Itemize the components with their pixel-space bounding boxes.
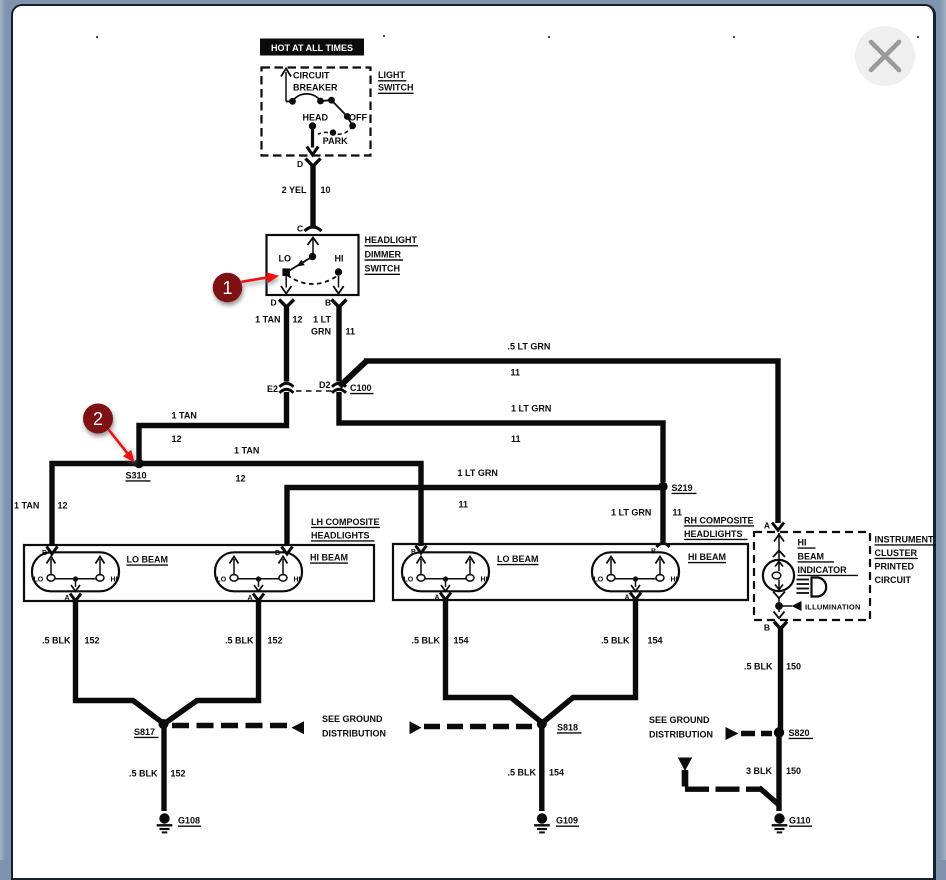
svg-text:.5 BLK: .5 BLK [129, 768, 158, 778]
wire 1 LT GRN 11 D2 to S219 [339, 392, 663, 482]
svg-text:10: 10 [321, 185, 331, 195]
svg-text:A: A [247, 595, 252, 602]
svg-text:A: A [764, 521, 770, 531]
light switch internal labels [293, 71, 367, 146]
svg-text:BEAM: BEAM [798, 551, 825, 561]
svg-text:150: 150 [786, 766, 801, 776]
svg-text:S310: S310 [126, 470, 147, 480]
svg-text:11: 11 [346, 326, 356, 336]
splice S219 label [672, 483, 697, 494]
svg-text:12: 12 [293, 314, 303, 324]
svg-text:SWITCH: SWITCH [378, 83, 414, 93]
splice S310 label [126, 470, 151, 481]
svg-text:.5 BLK: .5 BLK [42, 635, 71, 645]
svg-text:1 LT GRN: 1 LT GRN [511, 404, 551, 414]
INSTRUMENT CLUSTER PRINTED CIRCUIT title [875, 534, 937, 585]
HOT AT ALL TIMES feed label [260, 39, 364, 56]
lamp LH LO beam right filament loop [96, 575, 104, 582]
svg-text:.5 LT GRN: .5 LT GRN [508, 342, 551, 352]
wire 1 TAN 12 E2 to S310 [139, 392, 287, 460]
svg-text:HI BEAM: HI BEAM [688, 552, 726, 562]
cluster exit arrow [774, 606, 785, 618]
svg-text:C: C [297, 224, 303, 234]
HI BEAM label LH [310, 553, 348, 564]
circuit breaker curve [286, 94, 332, 102]
svg-text:S219: S219 [672, 483, 693, 493]
pin A arrow into instrument cluster [764, 521, 784, 531]
dimmer internal labels [279, 253, 344, 263]
connector C100 label [350, 383, 374, 394]
lamp RH HI beam common node dot [633, 576, 638, 581]
callout arrow 2 [109, 430, 135, 463]
pin B arrow into LH HI beam [275, 547, 293, 558]
splice S310 [134, 459, 143, 468]
LO BEAM label LH [127, 555, 169, 566]
light switch feed wire and arrow [281, 69, 291, 102]
pin A of RH LO beam [434, 593, 451, 602]
lamp LH HI beam bulb outline [215, 552, 302, 591]
svg-text:INDICATOR: INDICATOR [798, 565, 848, 575]
svg-text:11: 11 [459, 499, 469, 509]
headlight dimmer switch box [267, 235, 359, 295]
wire .5 LT GRN 11 to instrument cluster [364, 361, 778, 523]
svg-text:G108: G108 [178, 816, 200, 826]
svg-text:LO BEAM: LO BEAM [497, 554, 539, 564]
connector E2 [280, 383, 294, 393]
lamp LH HI beam right filament loop [279, 575, 287, 582]
svg-text:HI: HI [481, 577, 488, 584]
svg-text:SEE GROUND: SEE GROUND [322, 714, 383, 724]
svg-text:S817: S817 [134, 727, 155, 737]
LH COMPOSITE HEADLIGHTS title [311, 517, 380, 541]
lamp LH HI beam common node dot [256, 576, 261, 581]
lamp RH HI beam left filament loop [607, 575, 615, 582]
lamp RH HI beam right filament arrow [656, 557, 665, 576]
svg-text:GRN: GRN [311, 326, 331, 336]
wire .5 BLK 152 LH HI beam to S817 [166, 598, 259, 723]
svg-text:G110: G110 [789, 816, 811, 826]
svg-text:LO: LO [279, 253, 292, 263]
splice S818 label [557, 722, 582, 733]
svg-text:B: B [275, 550, 280, 557]
dimmer blade to LO [287, 257, 313, 273]
svg-text:LO: LO [594, 577, 604, 584]
svg-text:RH COMPOSITE: RH COMPOSITE [684, 515, 754, 525]
C100 dashed connector line [296, 390, 332, 392]
illumination branch arrow [779, 601, 802, 611]
splice S817 [159, 719, 169, 729]
wire 1 LT GRN 11 S219 to RH HI beam [660, 487, 665, 545]
svg-text:D: D [297, 159, 303, 169]
lamp RH LO beam filament bar [425, 578, 466, 580]
light switch box [262, 68, 371, 156]
PARK dashed arc and contact [318, 126, 353, 136]
instrument cluster printed circuit box [754, 532, 870, 620]
ground G108 symbol [157, 813, 173, 832]
wire .5 BLK 150 cluster B to S820 [778, 627, 783, 732]
svg-text:D: D [271, 298, 277, 308]
svg-text:ILLUMINATION: ILLUMINATION [805, 602, 861, 611]
wire branch diagonal at C100 [340, 361, 367, 387]
RH composite headlights box [393, 544, 748, 600]
close button [855, 26, 915, 86]
svg-text:HOT AT ALL TIMES: HOT AT ALL TIMES [271, 43, 353, 53]
svg-text:.5 BLK: .5 BLK [507, 767, 536, 777]
svg-text:HI: HI [111, 577, 118, 584]
hi beam indicator filament [772, 562, 783, 590]
svg-text:12: 12 [172, 434, 182, 444]
svg-text:LH COMPOSITE: LH COMPOSITE [311, 517, 380, 527]
svg-text:SEE GROUND: SEE GROUND [649, 715, 710, 725]
ground G110 label [789, 816, 812, 827]
svg-text:152: 152 [268, 635, 283, 645]
svg-text:.5 BLK: .5 BLK [601, 635, 630, 645]
svg-text:S820: S820 [789, 728, 810, 738]
splice S820 label [789, 728, 814, 739]
svg-text:PARK: PARK [323, 136, 348, 146]
dimmer dashed throw arc [287, 275, 339, 284]
lamp LH LO beam bulb outline [32, 552, 119, 591]
wire .5 BLK 154 S818 to G109 [539, 724, 544, 811]
hi beam indicator feed line [773, 533, 785, 559]
lamp LH HI beam left filament arrow [230, 557, 239, 576]
wire 1 LT GRN label [311, 314, 331, 336]
illumination beam icon [797, 578, 827, 597]
SEE GROUND DISTRIBUTION label left [322, 714, 386, 739]
splice S817 label [134, 727, 159, 738]
svg-text:154: 154 [454, 635, 469, 645]
svg-text:CLUSTER: CLUSTER [875, 548, 918, 558]
pin A of LH LO beam [64, 594, 81, 603]
HEAD contact and wire [307, 122, 318, 155]
RH COMPOSITE HEADLIGHTS title [684, 515, 754, 539]
svg-text:A: A [624, 595, 629, 602]
svg-text:12: 12 [58, 500, 68, 510]
svg-text:11: 11 [511, 368, 521, 378]
svg-text:11: 11 [511, 434, 521, 444]
svg-text:LO: LO [217, 577, 227, 584]
lamp LH LO beam common node dot [73, 576, 78, 581]
hi beam indicator bulb U1 [763, 560, 794, 591]
pin A of RH HI beam [624, 593, 641, 602]
svg-text:1 TAN: 1 TAN [14, 500, 39, 510]
ground G109 label [556, 816, 579, 827]
hi beam indicator output arrow [773, 592, 785, 607]
svg-text:A: A [64, 595, 69, 602]
wire 1 TAN 12 S310 bus to both LO beams [52, 464, 421, 547]
svg-text:CIRCUIT: CIRCUIT [293, 71, 330, 81]
HI BEAM INDICATOR title [798, 538, 859, 576]
svg-text:SWITCH: SWITCH [365, 264, 401, 274]
svg-text:LIGHT: LIGHT [378, 70, 405, 80]
HI contact [335, 268, 342, 275]
svg-text:150: 150 [786, 661, 801, 671]
lamp RH LO beam left filament arrow [417, 557, 426, 576]
wire .5 BLK 154 RH HI beam to S818 [544, 598, 636, 722]
circuit breaker contact dots [289, 97, 335, 105]
svg-text:3 BLK: 3 BLK [746, 766, 773, 776]
dimmer pivot dot [309, 253, 316, 260]
illumination tap node [775, 602, 783, 610]
svg-text:D2: D2 [319, 380, 331, 390]
LO contact [282, 268, 290, 276]
ground G108 label [178, 816, 201, 827]
LIGHT SWITCH title [378, 70, 414, 93]
wire .5 BLK 152 S817 to G108 [161, 724, 166, 811]
lamp RH HI beam left filament arrow [607, 557, 616, 576]
lamp LH HI beam right filament arrow [279, 557, 288, 576]
pin D of light switch [297, 159, 321, 169]
pin D of dimmer switch [271, 298, 295, 308]
dashed ground distribution wire from S817 [172, 723, 288, 728]
svg-text:12: 12 [236, 473, 246, 483]
svg-text:LO: LO [34, 577, 44, 584]
svg-text:INSTRUMENT: INSTRUMENT [875, 534, 934, 544]
LO BEAM label RH [497, 554, 539, 565]
modal blue backdrop left edge [0, 0, 6, 860]
lamp LH LO beam ground-side arrow [71, 579, 80, 591]
lamp LH LO beam left filament arrow [47, 557, 56, 576]
callout circle 1 [213, 273, 243, 303]
dashed ground distribution wire to S818 [424, 724, 536, 729]
lamp LH LO beam right filament arrow [96, 557, 105, 576]
svg-text:1 TAN: 1 TAN [234, 445, 259, 455]
lamp RH LO beam right filament arrow [466, 557, 475, 576]
lamp RH LO beam left filament loop [417, 575, 425, 582]
wire 3 BLK 150 S820 to G110 [776, 733, 781, 812]
svg-text:154: 154 [549, 767, 564, 777]
ground distribution arrowhead left [292, 721, 305, 734]
svg-text:S818: S818 [557, 722, 578, 732]
svg-text:1 LT: 1 LT [313, 314, 331, 324]
pin B arrow into LH LO beam [42, 547, 58, 558]
lamp RH LO beam right filament loop [466, 575, 474, 582]
svg-text:LO: LO [404, 577, 414, 584]
pin B dome into RH HI beam [651, 543, 670, 555]
switch blade to OFF [332, 100, 357, 129]
pin B of dimmer switch [325, 298, 347, 308]
wire 2 YEL 10 [310, 164, 315, 227]
dimmer HI output arrow [333, 276, 343, 294]
svg-text:1: 1 [222, 278, 232, 298]
svg-text:11: 11 [673, 507, 683, 517]
svg-text:.5 BLK: .5 BLK [225, 635, 254, 645]
svg-text:HEAD: HEAD [303, 112, 329, 122]
svg-text:DIMMER: DIMMER [365, 249, 402, 259]
modal blue backdrop right edge [939, 0, 946, 860]
lamp LH LO beam filament bar [55, 578, 96, 580]
lamp LH HI beam ground-side arrow [254, 579, 263, 591]
pin B arrow into RH LO beam [411, 546, 427, 557]
svg-text:LO BEAM: LO BEAM [127, 555, 169, 565]
svg-text:HI: HI [671, 577, 678, 584]
svg-text:152: 152 [171, 768, 186, 778]
off-page ground feed arrow [678, 758, 692, 787]
svg-text:B: B [325, 298, 331, 308]
dashed jog wire to G110 [685, 788, 778, 805]
svg-text:1 TAN: 1 TAN [172, 410, 197, 420]
ground distribution arrowhead to S820 [726, 727, 739, 740]
svg-text:2 YEL: 2 YEL [282, 185, 307, 195]
callout arrow 1 [242, 272, 280, 283]
svg-text:HI: HI [798, 538, 807, 548]
svg-text:A: A [434, 595, 439, 602]
svg-text:1 TAN: 1 TAN [255, 314, 280, 324]
callout circle 2 [83, 404, 113, 434]
LH composite headlights box [24, 545, 374, 601]
splice S818 [537, 719, 547, 729]
wire 1 LT GRN dimmer B to D2 [336, 305, 341, 382]
svg-text:E2: E2 [267, 384, 278, 394]
svg-text:152: 152 [85, 635, 100, 645]
svg-text:1 LT GRN: 1 LT GRN [458, 468, 498, 478]
lamp LH HI beam filament bar [238, 578, 279, 580]
pin B of instrument cluster [764, 622, 787, 633]
svg-text:1 LT GRN: 1 LT GRN [611, 507, 651, 517]
HEADLIGHT DIMMER SWITCH title [365, 235, 419, 274]
lamp RH LO beam ground-side arrow [441, 579, 450, 591]
svg-text:CIRCUIT: CIRCUIT [875, 575, 912, 585]
ground G109 symbol [534, 813, 550, 832]
lamp RH LO beam bulb outline [402, 552, 489, 591]
svg-text:DISTRIBUTION: DISTRIBUTION [322, 728, 386, 738]
svg-text:HI: HI [294, 577, 301, 584]
svg-text:HEADLIGHTS: HEADLIGHTS [311, 530, 370, 540]
lamp RH HI beam right filament loop [656, 575, 664, 582]
svg-text:HEADLIGHT: HEADLIGHT [365, 235, 418, 245]
HI BEAM label RH [688, 552, 726, 563]
svg-text:DISTRIBUTION: DISTRIBUTION [649, 729, 713, 739]
dimmer feed line and arrow [308, 238, 319, 257]
svg-text:B: B [764, 622, 770, 632]
svg-text:C100: C100 [350, 383, 372, 393]
ground distribution arrowhead right [410, 721, 422, 734]
wire .5 BLK 154 RH LO beam to S818 [446, 598, 542, 723]
ground G110 symbol [772, 813, 788, 832]
wire .5 BLK 152 LH LO beam to S817 [76, 598, 164, 724]
wire 1 LT GRN 11 S219 to LH HI beam [287, 488, 660, 547]
svg-text:HEADLIGHTS: HEADLIGHTS [684, 529, 743, 539]
svg-text:HI: HI [335, 253, 344, 263]
wire 1 TAN 12 dimmer D to E2 [284, 305, 289, 382]
lamp RH LO beam common node dot [443, 576, 448, 581]
connector D2 [332, 383, 346, 393]
svg-text:.5 BLK: .5 BLK [411, 635, 440, 645]
svg-text:2: 2 [93, 409, 103, 429]
svg-text:G109: G109 [556, 816, 578, 826]
svg-text:BREAKER: BREAKER [293, 82, 338, 92]
svg-text:154: 154 [648, 635, 663, 645]
svg-text:HI BEAM: HI BEAM [310, 553, 348, 563]
dimmer LO output arrow [281, 276, 292, 294]
pin C of dimmer switch [297, 224, 322, 234]
lamp RH HI beam filament bar [615, 578, 656, 580]
scan specks [96, 35, 919, 38]
svg-text:PRINTED: PRINTED [875, 561, 915, 571]
lamp LH HI beam left filament loop [230, 575, 238, 582]
splice S219 [658, 482, 667, 491]
lamp LH LO beam left filament loop [47, 575, 55, 582]
dashed ground distribution wire to S820 [741, 731, 772, 736]
lamp RH HI beam ground-side arrow [631, 579, 640, 591]
svg-text:OFF: OFF [349, 112, 367, 122]
pin A of LH HI beam [247, 594, 264, 603]
lamp RH HI beam bulb outline [592, 552, 679, 591]
SEE GROUND DISTRIBUTION label right [649, 715, 713, 740]
splice S820 [774, 727, 784, 737]
svg-text:.5 BLK: .5 BLK [744, 661, 773, 671]
